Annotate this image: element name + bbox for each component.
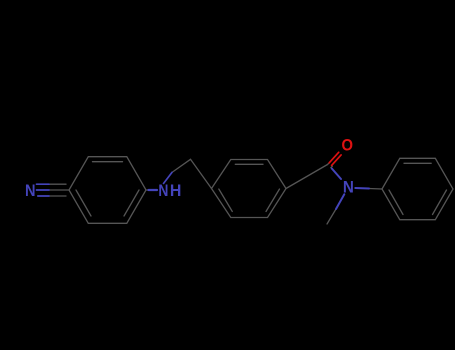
svg-text:O: O: [342, 136, 354, 155]
svg-text:N: N: [158, 181, 168, 200]
svg-text:N: N: [25, 181, 36, 200]
svg-text:N: N: [343, 177, 354, 196]
svg-text:H: H: [170, 181, 182, 200]
